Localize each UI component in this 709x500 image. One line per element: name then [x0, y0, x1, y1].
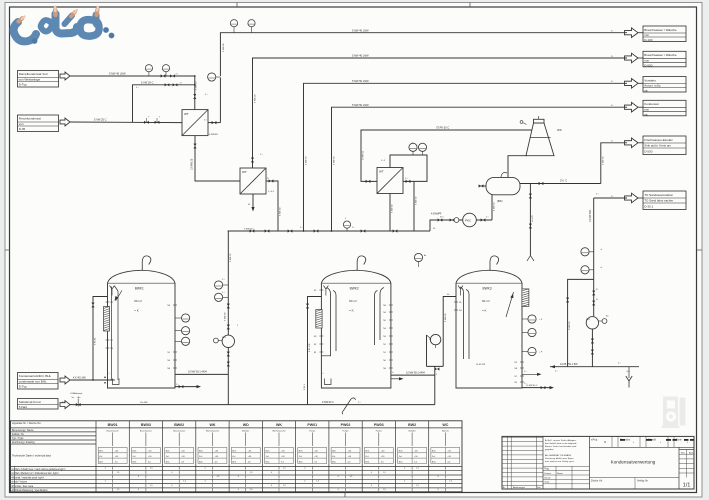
svg-text:Zeichnung / drawing: Zeichnung / drawing	[12, 441, 35, 444]
svg-text:N0: N0	[168, 360, 170, 362]
wire stem	[418, 262, 420, 267]
valve	[170, 74, 175, 77]
svg-text:75 PK 50 C: 75 PK 50 C	[436, 125, 449, 129]
svg-text:2 t: 2 t	[267, 177, 270, 180]
svg-text:Typ / Type: Typ / Type	[12, 437, 24, 440]
output flag 5	[625, 138, 639, 148]
svg-text:N5: N5	[459, 302, 461, 304]
input flag 2	[60, 118, 70, 126]
instrument circle tank1	[182, 314, 190, 322]
svg-text:Zul.: Zul.	[299, 456, 303, 458]
svg-text:Betr.: Betr.	[99, 460, 104, 463]
valve	[481, 218, 486, 221]
heat exchanger WT3	[377, 168, 403, 194]
svg-text:10a NW: 10a NW	[140, 402, 148, 404]
tank wall nozzle ticks	[173, 304, 177, 306]
instrument circle tank3	[528, 347, 536, 355]
svg-text:Betr.: Betr.	[399, 460, 404, 463]
instrument circle	[581, 248, 589, 256]
wire stack drain to vessel	[508, 156, 527, 178]
output flag 4	[625, 102, 639, 112]
svg-text:PW02: PW02	[341, 423, 351, 427]
svg-text:Zul.: Zul.	[266, 456, 270, 458]
svg-text:Pumpe: Pumpe	[309, 430, 315, 432]
heater element tank1	[104, 307, 110, 332]
valve	[155, 121, 160, 124]
svg-text:10 NW 80 C: 10 NW 80 C	[526, 385, 538, 387]
tank1 dip tubes	[112, 287, 119, 381]
svg-text:5 NW 40: 5 NW 40	[280, 207, 282, 216]
svg-text:Verfüg.-Nr.: Verfüg.-Nr.	[637, 480, 649, 483]
input box Kondensat BHL	[18, 373, 59, 390]
wire bottom right header	[550, 366, 639, 368]
svg-text:Rev.: Rev.	[681, 452, 686, 454]
svg-text:10 NW 50-1.4404: 10 NW 50-1.4404	[188, 371, 207, 374]
output flag 1	[625, 28, 639, 38]
svg-text:S: S	[604, 440, 606, 444]
svg-text:60 m³: 60 m³	[349, 299, 357, 303]
svg-text:5a → 4br: 5a → 4br	[72, 396, 81, 399]
wire pump stub	[599, 320, 603, 322]
svg-text:K K 40 LNW: K K 40 LNW	[73, 378, 86, 380]
svg-text:BW03: BW03	[141, 423, 151, 427]
valve	[212, 121, 217, 124]
wire drop to bottom header	[227, 374, 229, 404]
svg-text:BW2: BW2	[408, 423, 416, 427]
wire stem	[422, 151, 424, 155]
valve	[227, 304, 230, 309]
svg-text:Änderungen: Änderungen	[513, 486, 526, 489]
svg-text:LV/Abdampf: LV/Abdampf	[70, 392, 82, 395]
svg-text:Ä. Bell - unsere Techn. Anlage: Ä. Bell - unsere Techn. Anlagen-	[545, 439, 576, 442]
svg-text:BW02: BW02	[174, 423, 184, 427]
wire stem	[216, 76, 221, 78]
svg-text:condensate von BHL: condensate von BHL	[19, 380, 47, 384]
svg-text:9 NW 80 C: 9 NW 80 C	[322, 401, 334, 404]
wire pump stub	[218, 340, 222, 342]
instrument circle tank1	[182, 337, 190, 345]
wire pump1 column	[227, 231, 229, 374]
valve	[306, 304, 309, 309]
svg-text:Behälter: Behälter	[242, 429, 249, 432]
svg-text:•: •	[687, 441, 688, 444]
svg-text:Betr.: Betr.	[332, 460, 337, 463]
svg-text:N8: N8	[168, 305, 170, 307]
tank BWK2	[321, 270, 391, 388]
Y nozzle BWK1	[110, 286, 115, 296]
wire stem	[233, 27, 235, 33]
wire input line 3	[70, 379, 115, 381]
instrument circle tank3	[528, 328, 536, 336]
wire HX2 right to header	[266, 181, 278, 231]
wire drop to bottom line	[434, 366, 436, 404]
svg-text:Apparate Nr. / Device No.: Apparate Nr. / Device No.	[12, 421, 42, 425]
valve	[366, 180, 371, 183]
svg-text:5 barü: 5 barü	[19, 405, 28, 409]
valve	[269, 179, 274, 182]
valve	[541, 386, 546, 389]
svg-text:A•: A•	[424, 254, 426, 257]
svg-text:Zeichn.-Nr.: Zeichn.-Nr.	[591, 480, 603, 483]
svg-text:Betr.: Betr.	[365, 450, 370, 453]
svg-text:N0: N0	[383, 360, 385, 362]
svg-text:tum, wird nur zur Verfüg. gest: tum, wird nur zur Verfüg. gest.	[545, 460, 575, 463]
instrument circle PI	[208, 73, 216, 81]
svg-text:Zul.: Zul.	[99, 456, 103, 458]
arrowhead	[510, 293, 514, 298]
svg-text:PW01: PW01	[307, 423, 317, 427]
wire stem	[589, 269, 594, 271]
valve	[438, 218, 443, 221]
svg-text:Brauchwasser: Brauchwasser	[107, 429, 119, 432]
valve	[165, 83, 170, 86]
svg-text:5 NW 50: 5 NW 50	[305, 156, 307, 165]
svg-text:gegeben.: gegeben.	[545, 449, 555, 451]
stack top-left vent tick	[520, 121, 523, 124]
heater element tank2	[316, 310, 322, 329]
instrument circle tank1	[182, 327, 190, 335]
svg-text:N2: N2	[515, 362, 517, 364]
wire riser HX1 right	[219, 78, 221, 123]
svg-text:Frischwasser-Einsätz: Frischwasser-Einsätz	[644, 138, 673, 142]
svg-text:N8: N8	[515, 368, 517, 370]
svg-text:von: von	[644, 58, 649, 62]
valve	[144, 121, 149, 124]
svg-text:N2: N2	[314, 344, 316, 346]
heat exchanger WT2	[240, 168, 266, 194]
svg-text:M: M	[429, 339, 431, 341]
instrument circle	[215, 293, 223, 301]
svg-text:2½“ C: 2½“ C	[560, 179, 567, 183]
svg-text:10 WW 25: 10 WW 25	[191, 158, 194, 170]
pump P2	[586, 317, 598, 329]
svg-text:Pumpe: Pumpe	[343, 430, 349, 432]
wire vessel outlet drop	[491, 195, 493, 220]
svg-text:va: va	[644, 112, 648, 116]
svg-text:6 W 1: 6 W 1	[304, 384, 306, 390]
svg-text:5 NW 50: 5 NW 50	[569, 321, 571, 330]
svg-text:N8: N8	[383, 305, 385, 307]
svg-text:5 NW 50 C: 5 NW 50 C	[244, 229, 255, 231]
valve	[227, 362, 230, 367]
svg-text:14.65 PW: 14.65 PW	[476, 364, 485, 366]
svg-text:WD: WD	[243, 423, 249, 427]
svg-text:N5: N5	[111, 302, 113, 304]
wire HX3 bottom to header	[389, 194, 391, 232]
flag connector stubs	[638, 32, 643, 34]
svg-text:va: va	[644, 89, 648, 93]
svg-text:BWK1: BWK1	[135, 287, 144, 291]
output box 2	[643, 51, 686, 67]
svg-text:5 VW 20 C: 5 VW 20 C	[141, 80, 154, 84]
svg-text:BWK3: BWK3	[483, 287, 492, 291]
svg-text:m³ Beh. (Inhalt) Gew. / tank v: m³ Beh. (Inhalt) Gew. / tank volume guid…	[12, 468, 66, 471]
output flag 2	[625, 53, 639, 63]
svg-text:Sattdampf-Kond.: Sattdampf-Kond.	[19, 400, 42, 404]
svg-text:10 NW 50C: 10 NW 50C	[589, 209, 592, 222]
svg-text:N6: N6	[111, 348, 113, 350]
valve	[592, 291, 595, 296]
wire stem	[223, 284, 229, 286]
svg-text:N5: N5	[383, 320, 385, 322]
tank BWK1	[108, 270, 176, 388]
valve	[566, 298, 569, 303]
svg-text:BW01: BW01	[108, 423, 118, 427]
svg-text:TO Sandsteamstation: TO Sandsteamstation	[644, 193, 673, 197]
heat exchanger WT1	[182, 110, 208, 136]
valve	[479, 184, 484, 187]
valve	[173, 83, 178, 86]
wire pump bracket	[427, 335, 444, 366]
valve	[161, 74, 166, 77]
svg-text:4 NW 50: 4 NW 50	[494, 202, 496, 211]
svg-text:WC: WC	[442, 423, 448, 427]
output box 5	[643, 136, 686, 155]
tank3 dip tubes	[460, 287, 469, 359]
wire tank1 outlet	[175, 373, 228, 375]
output box 6	[643, 191, 686, 210]
valve	[251, 158, 254, 163]
svg-text:Zeichnung bleibt unser Eigen-: Zeichnung bleibt unser Eigen-	[545, 457, 574, 460]
tank2 bottom nozzle	[325, 379, 332, 385]
pump P1	[222, 335, 234, 347]
svg-text:Zul.: Zul.	[232, 456, 236, 458]
svg-text:Zul.: Zul.	[399, 456, 403, 458]
pump P-23	[430, 334, 440, 344]
svg-text:Betr.: Betr.	[166, 460, 171, 463]
wire tank1 left loop	[93, 297, 108, 381]
instrument circle	[145, 65, 152, 72]
svg-text:WT: WT	[184, 112, 189, 116]
svg-text:N4: N4	[383, 328, 385, 330]
svg-text:Brauchwasser: Brauchwasser	[140, 429, 152, 432]
svg-text:Kondensat: Kondensat	[644, 102, 659, 106]
svg-text:Behälter: Behälter	[409, 429, 416, 432]
svg-text:von: von	[644, 107, 649, 111]
input flag 4	[60, 401, 70, 409]
input box Frischkondensat	[18, 115, 59, 132]
svg-text:N8: N8	[168, 368, 170, 370]
valve	[529, 194, 532, 199]
svg-text:N1: N1	[383, 352, 385, 354]
svg-text:5 NW 40: 5 NW 40	[255, 94, 257, 103]
svg-text:Wärmet.: Wärmet.	[442, 429, 450, 432]
svg-text:Betr.: Betr.	[266, 450, 271, 453]
valve stems	[147, 118, 158, 122]
svg-text:N3: N3	[314, 336, 316, 338]
wire main header	[228, 230, 430, 232]
svg-text:Betr.: Betr.	[133, 450, 138, 453]
wire stem	[165, 72, 167, 76]
instrument TI on line1	[230, 20, 237, 27]
svg-text:Datum: Datum	[545, 472, 552, 475]
tank1 internal arrow	[115, 286, 123, 301]
instrument circle tank3	[528, 315, 536, 323]
wire to output 6	[594, 197, 627, 199]
wire stem	[589, 251, 594, 253]
svg-text:10 NW 80-1.4404: 10 NW 80-1.4404	[406, 371, 425, 374]
tank3 internal arrow	[506, 292, 514, 317]
svg-text:5 NW 50 LNW: 5 NW 50 LNW	[352, 79, 369, 83]
svg-text:Bauart, Techn. beschrieben wir: Bauart, Techn. beschrieben wird	[545, 445, 577, 448]
svg-text:PKC: PKC	[465, 219, 472, 223]
svg-text:14.65 PW 1.5W: 14.65 PW 1.5W	[560, 363, 578, 366]
wire tank2 outlet	[391, 374, 435, 376]
pump bracket stubs	[427, 335, 436, 348]
valve	[539, 182, 544, 185]
svg-text:Material / materials: Material / materials peak. kg/m³	[12, 476, 44, 479]
tank2 dip tube right	[375, 288, 385, 346]
wire stem	[346, 228, 348, 231]
wire HX1 right stub	[208, 122, 220, 124]
svg-text:Brauchwasser: Brauchwasser	[173, 429, 185, 432]
svg-text:Frischkondensat: Frischkondensat	[19, 117, 41, 121]
svg-text:Inhalt / Volume: Inhalt / Volume	[12, 481, 28, 484]
svg-text:5 NW 50: 5 NW 50	[333, 156, 335, 165]
svg-text:von: von	[19, 122, 24, 126]
svg-text:Brauchwasser / Wäsche: Brauchwasser / Wäsche	[644, 28, 677, 32]
svg-text:Bearb.: Bearb.	[545, 476, 552, 479]
svg-text:Vorwärts: Vorwärts	[644, 78, 656, 82]
svg-text:50 t: 50 t	[440, 216, 444, 219]
wire input line 2	[70, 121, 182, 124]
svg-text:Wärmetauscher: Wärmetauscher	[206, 429, 220, 432]
svg-text:Betr.: Betr.	[133, 460, 138, 463]
svg-text:Kondensatverwertung: Kondensatverwertung	[611, 460, 656, 465]
svg-text:5 NW 40: 5 NW 40	[223, 43, 225, 52]
svg-text:Zul.: Zul.	[199, 456, 203, 458]
svg-text:D-500: D-500	[644, 150, 653, 154]
svg-text:Sink aufür. Kreis am: Sink aufür. Kreis am	[644, 144, 671, 148]
wire stub	[522, 332, 528, 334]
svg-text:N2: N2	[383, 344, 385, 346]
valve	[76, 403, 81, 406]
drain arrow	[550, 386, 555, 389]
valve	[250, 229, 255, 232]
svg-text:Betr.: Betr.	[365, 460, 370, 463]
svg-text:Betr.: Betr.	[199, 460, 204, 463]
instrument circle on header	[343, 221, 350, 228]
svg-text:WK: WK	[557, 128, 562, 132]
instrument circle	[215, 281, 223, 289]
wire stem	[412, 151, 414, 155]
wire HX3 right to header	[413, 181, 415, 231]
svg-text:BWK2: BWK2	[350, 287, 359, 291]
valve	[227, 325, 230, 330]
svg-text:Kondensatrückführ. BHL: Kondensatrückführ. BHL	[19, 374, 52, 378]
svg-text:5 NW 50 LNW: 5 NW 50 LNW	[352, 103, 369, 107]
svg-text:1/1: 1/1	[683, 482, 691, 488]
svg-text:WT: WT	[242, 170, 247, 174]
svg-text:5 NW 40 LNW: 5 NW 40 LNW	[352, 54, 369, 58]
vessel BK	[486, 177, 520, 194]
svg-text:WK: WK	[210, 423, 216, 427]
svg-text:2 NW 50: 2 NW 50	[602, 156, 604, 165]
valve	[435, 367, 440, 370]
svg-text:D-30.1: D-30.1	[644, 205, 653, 209]
svg-text:Technische Daten / technical: Technische Daten / technical data	[12, 454, 51, 458]
tank2 dip tube left	[327, 288, 337, 356]
wire tank2 left loop	[308, 297, 322, 405]
svg-text:Betr.: Betr.	[432, 450, 437, 453]
svg-text:60 m³: 60 m³	[482, 299, 490, 303]
svg-text:75 PK 50: 75 PK 50	[363, 150, 365, 160]
svg-text:v.Proj.: v.Proj.	[591, 439, 598, 442]
svg-text:N3: N3	[383, 336, 385, 338]
wire pump discharge	[591, 329, 593, 367]
svg-text:Betr.: Betr.	[232, 460, 237, 463]
svg-text:6 W 40: 6 W 40	[95, 337, 97, 345]
instrument circle	[581, 266, 589, 274]
wire stub	[175, 340, 182, 342]
valve	[265, 229, 270, 232]
svg-text:Betr.: Betr.	[432, 460, 437, 463]
svg-text:6-WWW2: 6-WWW2	[209, 134, 219, 136]
wire stub	[522, 318, 528, 320]
svg-text:4-DAMPF: 4-DAMPF	[431, 213, 442, 216]
wire right riser	[593, 198, 595, 316]
svg-text:Betr.: Betr.	[232, 450, 237, 453]
svg-text:5 NW 40: 5 NW 40	[392, 204, 394, 213]
svg-text:5 NW 40: 5 NW 40	[225, 312, 227, 321]
input flag 1	[60, 72, 70, 80]
svg-text:WK: WK	[276, 423, 282, 427]
instrument circle	[162, 65, 169, 72]
svg-text:Zul.: Zul.	[332, 456, 336, 458]
wire riser to output 5	[601, 143, 627, 184]
wire stem	[148, 72, 150, 76]
svg-text:D-Typ: D-Typ	[19, 83, 27, 87]
svg-text:•: •	[633, 441, 634, 444]
heater element tank3	[522, 289, 529, 307]
instrument circle LI tank2	[414, 253, 422, 261]
wire line1 to output 1	[220, 33, 627, 76]
svg-text:Prüfdruck/Zulassung / specif: Prüfdruck/Zulassung / specification	[12, 489, 48, 492]
valve	[227, 352, 230, 357]
svg-text:Gepr.: Gepr.	[545, 481, 551, 484]
title block top band dark marks	[620, 439, 694, 441]
svg-text:Betr.: Betr.	[266, 460, 271, 463]
valve	[91, 303, 94, 308]
tank1 bottom nozzle	[113, 379, 120, 385]
input box Dampfkondensat	[18, 71, 59, 88]
instrument circle	[418, 143, 426, 151]
drain Y	[626, 376, 632, 388]
svg-text:Betr.: Betr.	[99, 450, 104, 453]
svg-text:3 NW 25: 3 NW 25	[230, 253, 232, 262]
svg-text:N7: N7	[111, 340, 113, 342]
svg-text:PW03: PW03	[374, 423, 384, 427]
svg-text:≈ K: ≈ K	[482, 309, 486, 313]
svg-text:Proj.: Proj.	[545, 468, 550, 471]
svg-text:Betr.: Betr.	[399, 450, 404, 453]
svg-text:6 W 1 W: 6 W 1 W	[309, 343, 311, 352]
svg-text:Dat.: Dat.	[537, 486, 541, 489]
wire HX1 bottom to HX2	[195, 136, 240, 181]
pump PKC	[463, 213, 477, 227]
equipment data table	[11, 421, 463, 492]
wire stub	[175, 317, 182, 319]
valve	[193, 94, 196, 99]
svg-text:Zul.: Zul.	[166, 456, 170, 458]
wire line3 to output 3	[304, 83, 628, 231]
valve	[529, 224, 532, 229]
svg-text:•: •	[660, 441, 661, 444]
vent curl on BWK3	[490, 256, 499, 270]
vent curl on BWK1	[142, 256, 151, 270]
svg-text:Betr.: Betr.	[299, 460, 304, 463]
tank BWK3	[456, 270, 522, 388]
